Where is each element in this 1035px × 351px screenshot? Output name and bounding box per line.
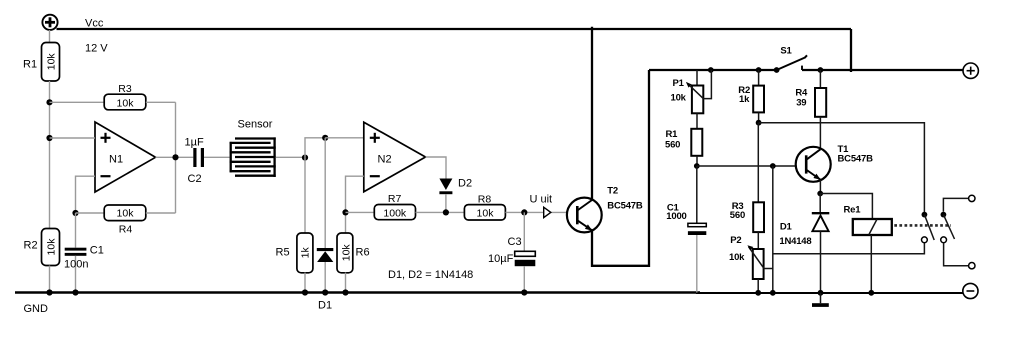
wire R2 bottom — [758, 112, 760, 122]
svg-text:P1: P1 — [673, 78, 685, 89]
svg-text:R2: R2 — [24, 239, 38, 251]
svg-text:10k: 10k — [117, 208, 135, 220]
arrow U uit — [544, 207, 551, 217]
wire P1 top — [696, 70, 698, 86]
node C3 ground — [521, 289, 527, 295]
capacitor C3 10uF — [515, 212, 536, 292]
svg-text:10k: 10k — [340, 244, 352, 262]
node relay ground — [868, 290, 874, 296]
wire R5 to ground — [304, 273, 306, 293]
node R3 tap — [46, 99, 52, 105]
wire contact 2 to upper terminal — [943, 198, 968, 211]
node R2 ground — [46, 289, 52, 295]
svg-text:D1: D1 — [318, 300, 332, 312]
node T1 emitter — [817, 191, 823, 197]
node D1 ground — [322, 289, 328, 295]
capacitor C1 100n — [65, 213, 87, 293]
wire sensor to node — [276, 156, 305, 158]
wire T2 collector to Vcc — [591, 27, 593, 200]
node R7 left — [342, 209, 348, 215]
svg-text:1k: 1k — [300, 247, 312, 259]
wire contact return — [773, 243, 925, 254]
wire contact 2 to lower terminal — [944, 243, 969, 266]
svg-text:GND: GND — [24, 303, 49, 315]
svg-text:BC547B: BC547B — [838, 154, 874, 165]
wire R6 top — [345, 212, 347, 233]
terminal + (right) — [963, 63, 978, 78]
wire terminal to R1 — [49, 30, 51, 43]
wire feedback column — [175, 102, 177, 213]
svg-text:R4: R4 — [119, 224, 133, 236]
svg-text:10k: 10k — [45, 238, 57, 256]
wire R7 to R8 — [416, 211, 465, 213]
diode D1 (left) — [317, 138, 334, 293]
wire node to R4 — [76, 212, 105, 214]
node R6 ground — [342, 289, 348, 295]
terminal - (right) — [963, 283, 978, 298]
svg-text:R1: R1 — [666, 129, 679, 140]
resistor R8 — [464, 205, 505, 220]
wire node to R7 — [346, 211, 375, 213]
svg-text:R7: R7 — [388, 193, 402, 205]
node R2 top on rail — [756, 67, 762, 73]
resistor R6 — [337, 233, 353, 273]
resistor R7 — [374, 205, 415, 220]
svg-text:T2: T2 — [607, 186, 618, 197]
resistor R2 (right) — [753, 86, 764, 113]
relay Re1 — [853, 219, 892, 235]
svg-text:39: 39 — [796, 98, 806, 109]
wire relay to ground — [870, 235, 872, 293]
wire +12V rail left of S1 — [649, 69, 777, 71]
wire to N2 +input — [325, 137, 364, 139]
svg-text:C1: C1 — [90, 244, 104, 256]
wire R2 top (right) — [758, 70, 760, 86]
svg-text:Re1: Re1 — [844, 205, 862, 216]
wire +12V rail right of S1 — [802, 69, 963, 71]
svg-text:P2: P2 — [730, 235, 741, 246]
capacitor C1 1000 — [688, 166, 706, 293]
ground bus — [15, 291, 700, 294]
wire R4 top (right) — [819, 70, 821, 88]
diode D1 (right) — [812, 194, 830, 293]
wire N1 +input — [50, 137, 96, 139]
svg-text:10k: 10k — [117, 98, 135, 110]
resistor R4 — [104, 205, 146, 221]
node N2 +input / D1 — [322, 135, 328, 141]
wire N2 -input — [346, 176, 364, 212]
resistor R1 (right) — [691, 129, 702, 156]
svg-text:1k: 1k — [739, 94, 750, 105]
node U uit — [521, 209, 527, 215]
svg-text:D1: D1 — [780, 222, 793, 233]
node C1 ground — [72, 289, 78, 295]
potentiometer P2 — [747, 245, 772, 279]
svg-text:10k: 10k — [729, 252, 745, 263]
node R1/C1/base net — [694, 163, 700, 169]
wire R8 to output node — [505, 211, 576, 213]
svg-text:10k: 10k — [45, 53, 57, 71]
wire node to R3 — [50, 101, 105, 103]
sensor comb element — [230, 137, 276, 177]
node R5 ground — [302, 289, 308, 295]
node N1 output — [172, 154, 178, 160]
potentiometer P1 — [686, 70, 712, 113]
resistor R3 — [104, 94, 146, 110]
node P2 ground — [755, 290, 761, 296]
svg-text:10k: 10k — [477, 208, 495, 220]
wire emitter to relay top — [820, 194, 872, 219]
node P1 wiper on rail — [708, 67, 714, 73]
svg-text:N2: N2 — [378, 154, 392, 166]
svg-text:R5: R5 — [276, 247, 290, 259]
wire R1 to node — [696, 156, 698, 166]
svg-text:1µF: 1µF — [185, 137, 204, 149]
wire Vcc drop to switch rail — [850, 29, 852, 72]
wire R3 to feedback column — [146, 101, 176, 103]
svg-text:C2: C2 — [188, 173, 202, 185]
wire P2 bottom to ground — [757, 279, 759, 293]
node x772 ground — [770, 290, 776, 296]
wire N1 -input down to R4 — [76, 176, 96, 213]
svg-text:10µF: 10µF — [488, 253, 514, 265]
node R4/C1 — [72, 210, 78, 216]
wire R2 node to contact column — [759, 123, 925, 215]
wire T2 emitter to rail — [592, 70, 649, 266]
svg-text:Vcc: Vcc — [85, 18, 104, 30]
node R4 top on rail — [818, 67, 824, 73]
op-amp N1 — [95, 122, 156, 192]
svg-text:1000: 1000 — [666, 211, 686, 222]
node D2/R7/R8 — [443, 209, 449, 215]
capacitor C2 1uF — [193, 148, 229, 167]
svg-text:R3: R3 — [118, 83, 132, 95]
wire R2 to ground — [49, 266, 51, 293]
svg-text:100n: 100n — [64, 259, 88, 271]
wire left column R1 to R2 — [49, 81, 51, 229]
node N1 +input tap — [46, 135, 52, 141]
svg-text:560: 560 — [730, 210, 745, 221]
svg-text:10k: 10k — [671, 93, 687, 104]
wire N1 output — [156, 156, 194, 158]
node R2 bottom — [756, 120, 762, 126]
wire T1 emitter — [819, 180, 821, 194]
svg-text:560: 560 — [665, 140, 680, 151]
wire P1 to R1 — [696, 113, 698, 129]
relay contact 2 — [941, 212, 955, 243]
switch S1 — [774, 55, 807, 73]
svg-text:R6: R6 — [356, 247, 370, 259]
resistor R3 (right) — [753, 202, 764, 232]
svg-text:R8: R8 — [478, 194, 492, 206]
wire R4 to feedback column — [146, 212, 176, 214]
svg-text:12 V: 12 V — [85, 43, 108, 55]
wire node up and to D1 node — [305, 138, 325, 158]
svg-text:BC547B: BC547B — [607, 201, 643, 212]
svg-text:D1, D2 = 1N4148: D1, D2 = 1N4148 — [388, 269, 473, 281]
wire N2 output to D2 — [426, 157, 447, 179]
node T1 base tap — [770, 163, 776, 169]
ground symbol — [812, 293, 829, 307]
terminal contact lower — [969, 263, 975, 269]
wire divider column x772 — [772, 166, 774, 293]
svg-text:C3: C3 — [508, 236, 522, 248]
resistor R2 — [42, 229, 60, 266]
svg-text:N1: N1 — [109, 154, 123, 166]
resistor R4 (right) — [815, 88, 826, 117]
transistor T1 — [796, 147, 831, 182]
wire R6 to ground — [345, 273, 347, 293]
node sensor/R5 — [302, 155, 308, 161]
transistor T2 — [567, 198, 602, 233]
terminal + (Vcc supply, top-left) — [42, 15, 57, 30]
dashed actuator link — [894, 224, 951, 227]
svg-text:100k: 100k — [383, 207, 407, 219]
svg-text:S1: S1 — [780, 46, 792, 57]
terminal contact upper — [969, 195, 975, 201]
wire R4 to T1 collector — [819, 117, 821, 149]
svg-text:1N4148: 1N4148 — [779, 236, 811, 247]
op-amp N2 — [364, 122, 426, 192]
wire node to R5 — [304, 158, 306, 233]
svg-text:Sensor: Sensor — [238, 119, 273, 131]
diode D2 — [439, 179, 452, 213]
wire Vcc bus (top) — [57, 28, 852, 30]
node D1 ground — [818, 290, 824, 296]
svg-text:R1: R1 — [23, 59, 37, 71]
wire R3 to P2 — [757, 232, 759, 249]
svg-text:U uit: U uit — [530, 194, 553, 206]
relay contact 1 — [922, 212, 935, 243]
wire base net — [697, 165, 806, 167]
resistor R1 — [42, 43, 60, 82]
svg-text:D2: D2 — [458, 178, 472, 190]
resistor R5 — [297, 233, 313, 273]
wire R2 to R3 — [757, 123, 759, 203]
